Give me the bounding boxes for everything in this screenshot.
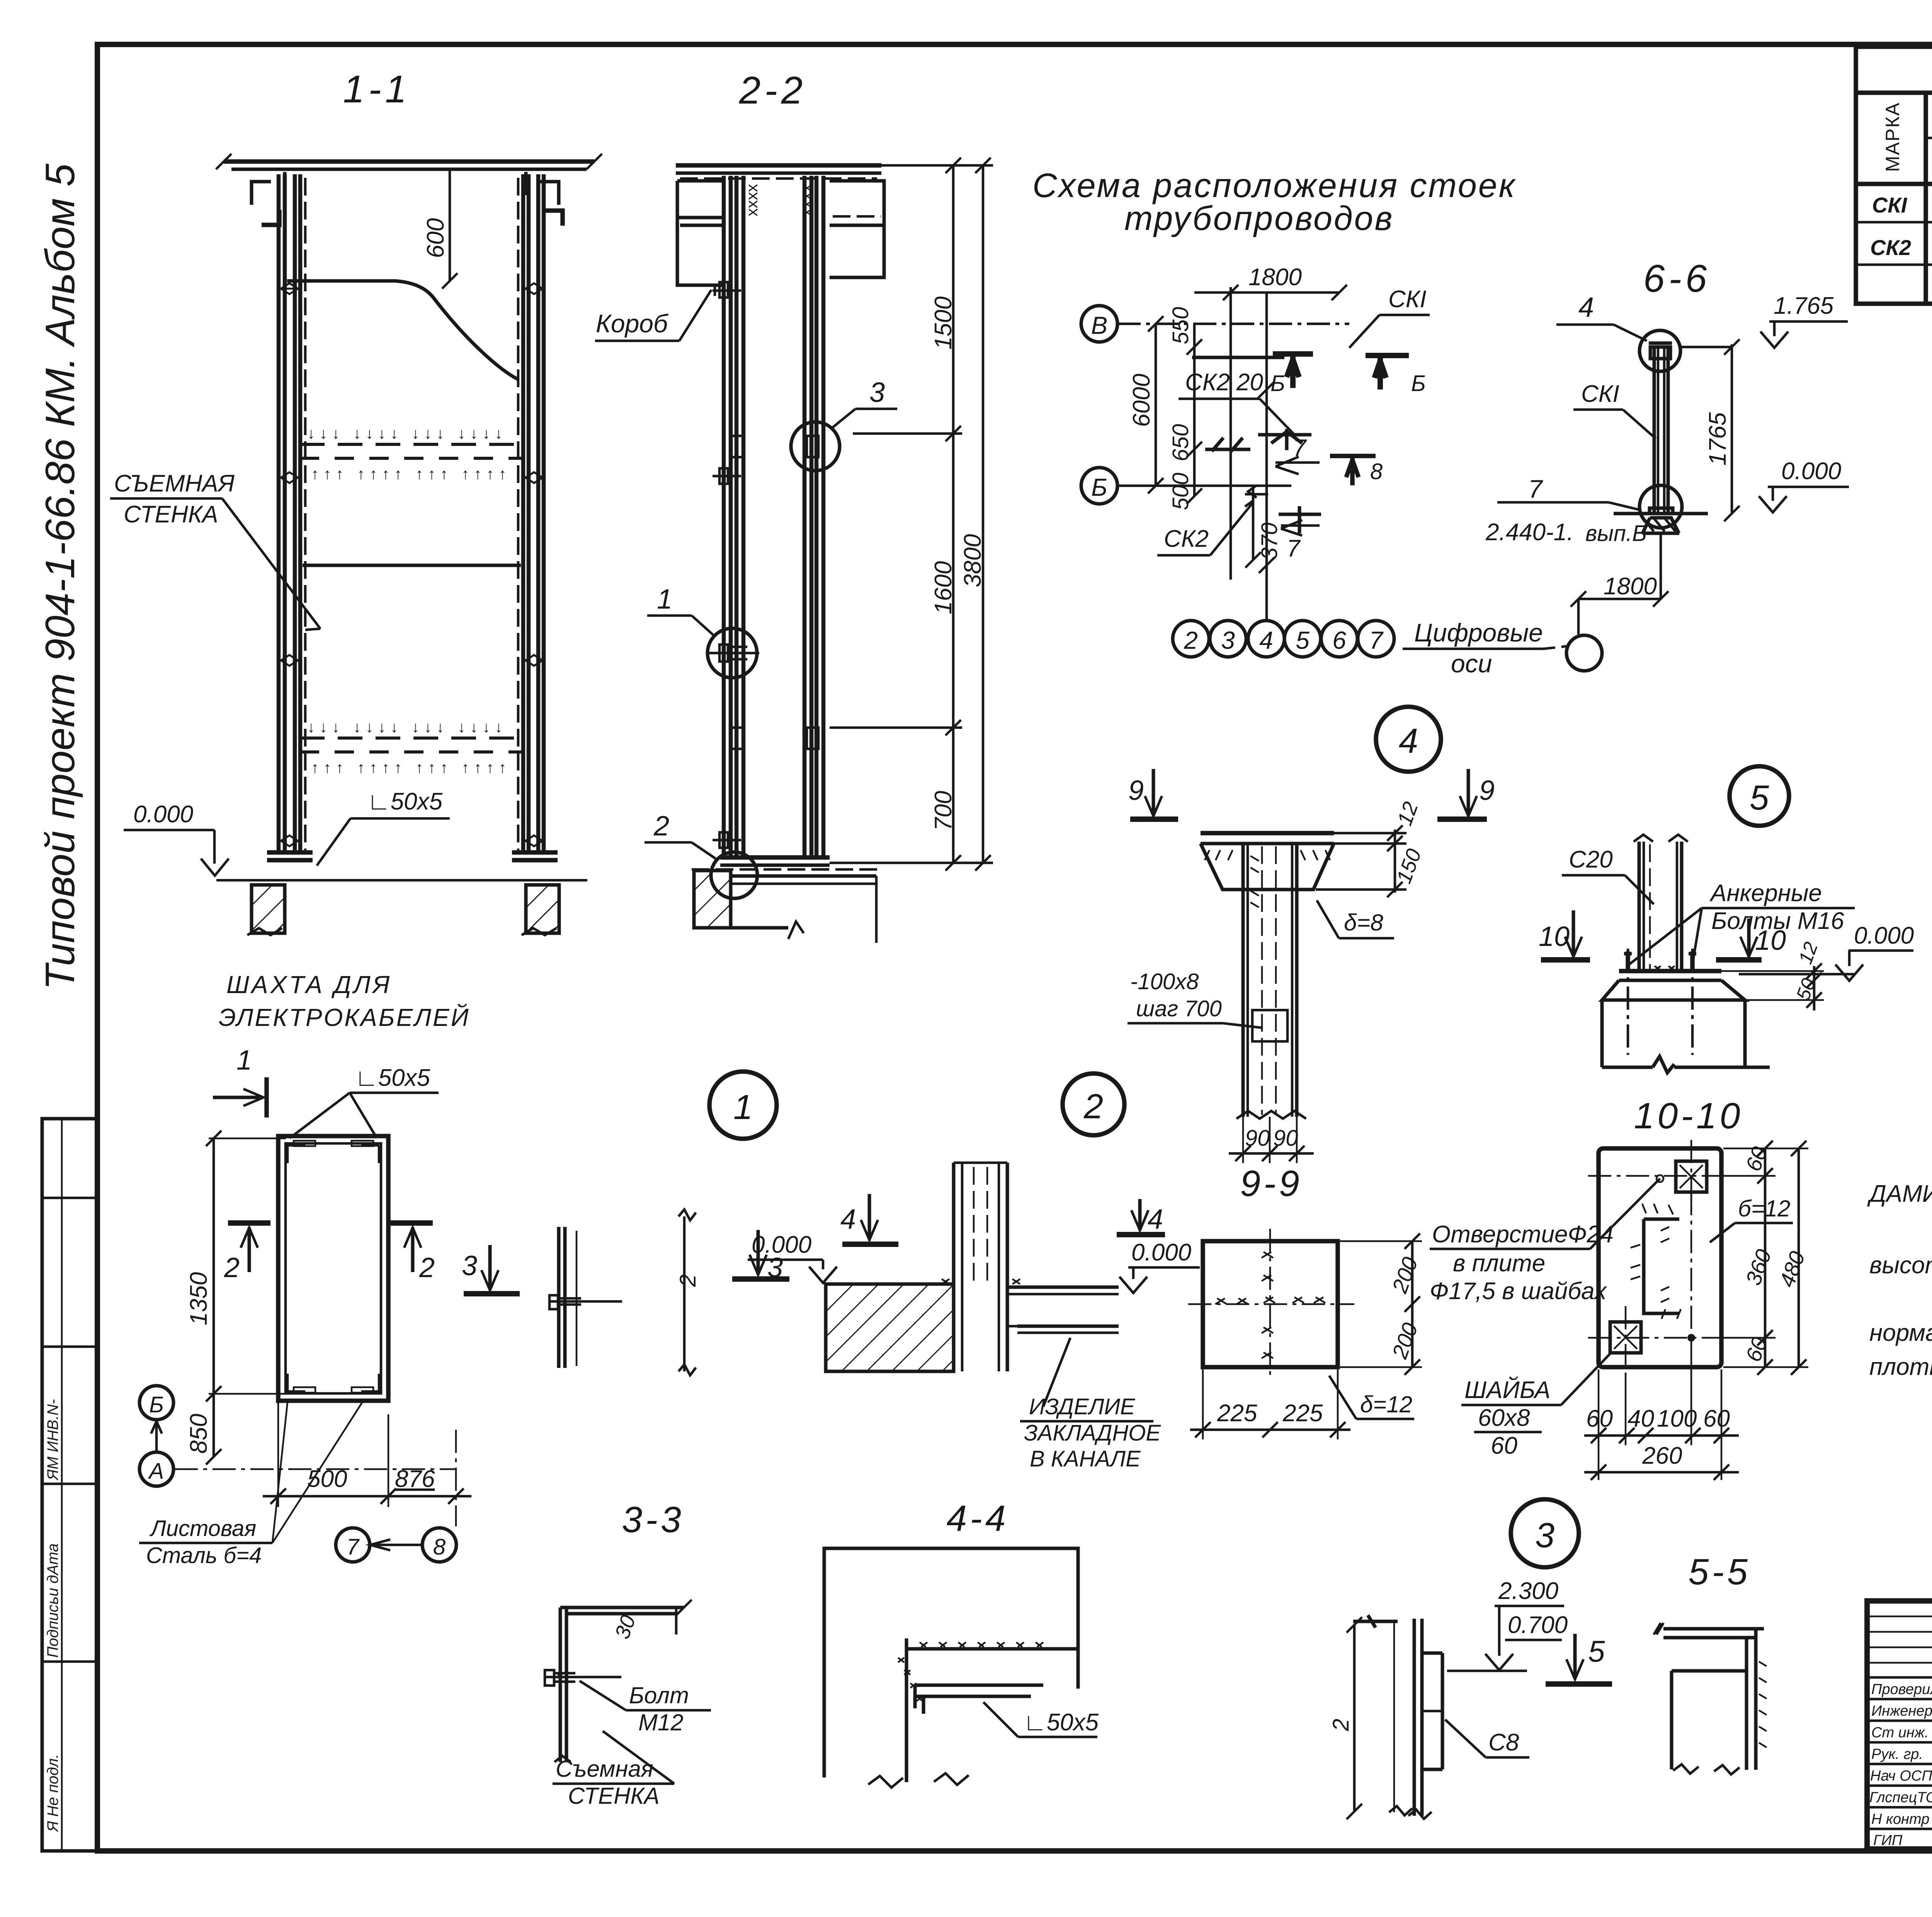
svg-text:δ=12: δ=12 — [1360, 1391, 1412, 1417]
svg-text:ШАХТА ДЛЯ: ШАХТА ДЛЯ — [226, 971, 392, 998]
svg-text:М12: М12 — [638, 1709, 684, 1735]
svg-text:вып.Б: вып.Б — [1585, 521, 1647, 546]
svg-text:2: 2 — [675, 1274, 701, 1287]
svg-text:1765: 1765 — [1704, 412, 1731, 466]
svg-text:С20: С20 — [1569, 846, 1613, 873]
svg-text:40: 40 — [1628, 1405, 1654, 1432]
svg-text:60х8: 60х8 — [1478, 1405, 1530, 1431]
svg-text:1: 1 — [236, 1045, 252, 1076]
svg-text:7: 7 — [347, 1534, 360, 1560]
svg-text:360: 360 — [1741, 1246, 1776, 1288]
svg-text:С8: С8 — [1488, 1729, 1519, 1756]
svg-text:150: 150 — [1392, 846, 1426, 886]
svg-text:9: 9 — [1479, 775, 1495, 806]
svg-text:100: 100 — [1657, 1405, 1697, 1432]
svg-text:3: 3 — [869, 377, 885, 408]
svg-text:4: 4 — [840, 1204, 856, 1235]
svg-text:2.300: 2.300 — [1498, 1578, 1558, 1604]
svg-text:↓↓↓ ↓↓↓↓ ↓↓↓ ↓↓↓↓: ↓↓↓ ↓↓↓↓ ↓↓↓ ↓↓↓↓ — [307, 425, 507, 442]
svg-text:4: 4 — [1259, 626, 1273, 654]
svg-text:480: 480 — [1774, 1248, 1810, 1290]
svg-text:ДАМИ Э42 по ГОСТ 9467-75.: ДАМИ Э42 по ГОСТ 9467-75. — [1867, 1180, 1932, 1207]
svg-text:2-2: 2-2 — [739, 69, 807, 112]
svg-text:А: А — [148, 1459, 164, 1484]
svg-text:7: 7 — [1528, 475, 1543, 503]
svg-text:∟50х5: ∟50х5 — [367, 788, 443, 815]
svg-text:ЭЛЕКТРОКАБЕЛЕЙ: ЭЛЕКТРОКАБЕЛЕЙ — [219, 1003, 470, 1031]
svg-text:30: 30 — [611, 1612, 640, 1642]
svg-text:500: 500 — [1168, 473, 1193, 510]
svg-text:1350: 1350 — [185, 1272, 212, 1325]
svg-text:8: 8 — [433, 1534, 446, 1560]
svg-text:-100х8: -100х8 — [1130, 969, 1199, 994]
svg-text:225: 225 — [1217, 1400, 1257, 1427]
svg-text:0.000: 0.000 — [1131, 1239, 1191, 1266]
svg-text:Анкерные: Анкерные — [1709, 880, 1822, 907]
svg-text:90: 90 — [1273, 1126, 1298, 1151]
svg-text:Типовой проект 904-1-66.86 КМ.: Типовой проект 904-1-66.86 КМ. Альбом 5 — [37, 163, 83, 990]
svg-text:Болт: Болт — [629, 1682, 689, 1708]
svg-text:Сталь б=4: Сталь б=4 — [146, 1543, 262, 1568]
svg-text:СК2: СК2 — [1870, 235, 1911, 260]
svg-text:4: 4 — [1578, 292, 1594, 323]
svg-text:1: 1 — [657, 584, 672, 615]
svg-text:3: 3 — [462, 1250, 477, 1281]
svg-text:δ=8: δ=8 — [1344, 910, 1383, 936]
svg-text:10: 10 — [1755, 925, 1786, 956]
svg-text:1600: 1600 — [930, 561, 957, 614]
svg-text:СЪЕМНАЯ: СЪЕМНАЯ — [114, 470, 235, 497]
svg-text:↑↑↑ ↑↑↑↑ ↑↑↑ ↑↑↑↑: ↑↑↑ ↑↑↑↑ ↑↑↑ ↑↑↑↑ — [311, 466, 511, 483]
svg-text:370: 370 — [1257, 522, 1282, 560]
svg-text:2: 2 — [1083, 1087, 1103, 1126]
svg-text:плотно затянуть, нарезку расче: плотно затянуть, нарезку расчеканить. — [1869, 1354, 1932, 1380]
svg-text:8: 8 — [1370, 459, 1383, 484]
svg-text:4-4: 4-4 — [946, 1498, 1009, 1539]
svg-text:1800: 1800 — [1248, 264, 1302, 291]
svg-text:1-1: 1-1 — [343, 68, 411, 111]
svg-text:ГИП: ГИП — [1873, 1832, 1903, 1849]
svg-text:1.765: 1.765 — [1774, 293, 1834, 319]
svg-text:высотой hш=4мм, остальные конс: высотой hш=4мм, остальные конструкции - … — [1869, 1252, 1932, 1279]
svg-text:СКI: СКI — [1872, 193, 1908, 217]
svg-text:Съемная: Съемная — [556, 1756, 653, 1782]
svg-text:СТЕНКА: СТЕНКА — [124, 501, 218, 528]
svg-text:СТЕНКА: СТЕНКА — [568, 1783, 660, 1809]
svg-text:550: 550 — [1168, 307, 1193, 344]
svg-text:60: 60 — [1703, 1405, 1730, 1432]
svg-text:3-3: 3-3 — [622, 1499, 684, 1540]
svg-text:Б: Б — [1091, 473, 1107, 501]
svg-text:2.440-1.: 2.440-1. — [1485, 519, 1574, 546]
svg-text:Б: Б — [149, 1392, 164, 1417]
svg-text:6000: 6000 — [1128, 374, 1155, 427]
svg-text:СКI: СКI — [1581, 381, 1619, 407]
svg-text:12: 12 — [1393, 799, 1423, 828]
svg-text:5-5: 5-5 — [1688, 1551, 1750, 1592]
svg-text:Ф17,5 в шайбах: Ф17,5 в шайбах — [1430, 1278, 1607, 1305]
svg-text:В КАНАЛЕ: В КАНАЛЕ — [1030, 1446, 1141, 1471]
svg-text:Б: Б — [1411, 371, 1426, 396]
svg-text:трубопроводов: трубопроводов — [1124, 199, 1394, 237]
svg-text:200: 200 — [1387, 1254, 1423, 1296]
svg-text:0.000: 0.000 — [1781, 458, 1841, 485]
svg-text:3800: 3800 — [959, 534, 986, 587]
svg-text:Нач ОСП-1: Нач ОСП-1 — [1870, 1768, 1932, 1784]
svg-text:ЗАКЛАДНОЕ: ЗАКЛАДНОЕ — [1024, 1420, 1161, 1446]
svg-text:МАРКА: МАРКА — [1882, 102, 1903, 172]
svg-text:∟50х5: ∟50х5 — [1023, 1709, 1099, 1736]
svg-text:Подписьи дАта: Подписьи дАта — [44, 1543, 61, 1658]
svg-text:Цифровые: Цифровые — [1414, 618, 1543, 647]
svg-text:2: 2 — [1184, 626, 1198, 654]
svg-text:1500: 1500 — [930, 296, 957, 350]
svg-text:В: В — [1091, 311, 1108, 339]
svg-text:2: 2 — [653, 811, 669, 842]
svg-text:xxxx: xxxx — [743, 184, 761, 216]
svg-text:10-10: 10-10 — [1634, 1095, 1743, 1136]
svg-text:шаг 700: шаг 700 — [1136, 996, 1222, 1021]
svg-text:Ст инж.: Ст инж. — [1871, 1725, 1929, 1741]
svg-text:оси: оси — [1451, 649, 1492, 678]
svg-text:260: 260 — [1642, 1442, 1682, 1469]
svg-text:0.000: 0.000 — [133, 801, 193, 828]
svg-text:4: 4 — [1399, 722, 1418, 760]
svg-text:5: 5 — [1588, 1634, 1605, 1668]
svg-text:∟50х5: ∟50х5 — [355, 1065, 430, 1091]
svg-text:5: 5 — [1750, 779, 1769, 817]
svg-text:7: 7 — [1287, 535, 1301, 562]
svg-text:3: 3 — [1221, 626, 1235, 654]
svg-text:2: 2 — [419, 1252, 435, 1283]
svg-text:Проверил: Проверил — [1871, 1681, 1932, 1698]
svg-text:1800: 1800 — [1604, 573, 1657, 600]
svg-text:2: 2 — [224, 1252, 240, 1283]
svg-text:Листовая: Листовая — [149, 1516, 256, 1541]
svg-text:ГлспецТО: ГлспецТО — [1869, 1789, 1932, 1806]
svg-text:6: 6 — [1332, 626, 1346, 654]
svg-text:6-6: 6-6 — [1643, 257, 1711, 300]
svg-text:1: 1 — [733, 1088, 753, 1127]
svg-text:850: 850 — [185, 1414, 212, 1454]
svg-text:нормальной точности и сварке,: нормальной точности и сварке, согласно у… — [1869, 1320, 1932, 1346]
svg-text:60: 60 — [1491, 1432, 1517, 1459]
svg-text:4: 4 — [1148, 1204, 1163, 1235]
svg-text:650: 650 — [1168, 424, 1193, 461]
svg-text:ИЗДЕЛИЕ: ИЗДЕЛИЕ — [1029, 1394, 1136, 1419]
svg-text:200: 200 — [1387, 1320, 1423, 1362]
svg-text:0.700: 0.700 — [1508, 1612, 1568, 1638]
svg-text:Короб: Короб — [596, 309, 669, 338]
svg-text:ШАЙБА: ШАЙБА — [1464, 1376, 1550, 1403]
svg-text:Я Не подл.: Я Не подл. — [44, 1754, 61, 1832]
svg-text:СКI: СКI — [1388, 286, 1427, 313]
svg-text:12: 12 — [1794, 939, 1822, 967]
svg-text:225: 225 — [1282, 1400, 1323, 1427]
svg-text:xxxx: xxxx — [797, 184, 815, 216]
svg-text:5: 5 — [1296, 626, 1310, 654]
svg-text:ЯМ ИНВ.N-: ЯМ ИНВ.N- — [44, 1399, 61, 1481]
svg-text:7: 7 — [1369, 626, 1384, 654]
svg-text:700: 700 — [930, 791, 957, 831]
svg-text:ОтверстиеФ24: ОтверстиеФ24 — [1432, 1221, 1614, 1248]
svg-text:0.000: 0.000 — [752, 1232, 811, 1258]
svg-text:9-9: 9-9 — [1240, 1163, 1302, 1204]
svg-text:0.000: 0.000 — [1854, 922, 1914, 949]
svg-text:876: 876 — [395, 1466, 435, 1492]
svg-text:60: 60 — [1586, 1405, 1613, 1432]
svg-text:2: 2 — [1328, 1719, 1354, 1732]
svg-text:9: 9 — [1128, 775, 1144, 806]
svg-text:СК2 20: СК2 20 — [1185, 369, 1263, 396]
svg-text:600: 600 — [422, 218, 449, 258]
svg-text:в плите: в плите — [1453, 1250, 1545, 1277]
svg-text:Н контр: Н контр — [1871, 1811, 1929, 1827]
svg-text:Рук. гр.: Рук. гр. — [1871, 1746, 1923, 1762]
svg-text:3: 3 — [1535, 1516, 1554, 1555]
svg-text:СК2: СК2 — [1164, 526, 1209, 552]
svg-text:Инженер: Инженер — [1871, 1703, 1932, 1719]
svg-text:90: 90 — [1245, 1126, 1270, 1151]
